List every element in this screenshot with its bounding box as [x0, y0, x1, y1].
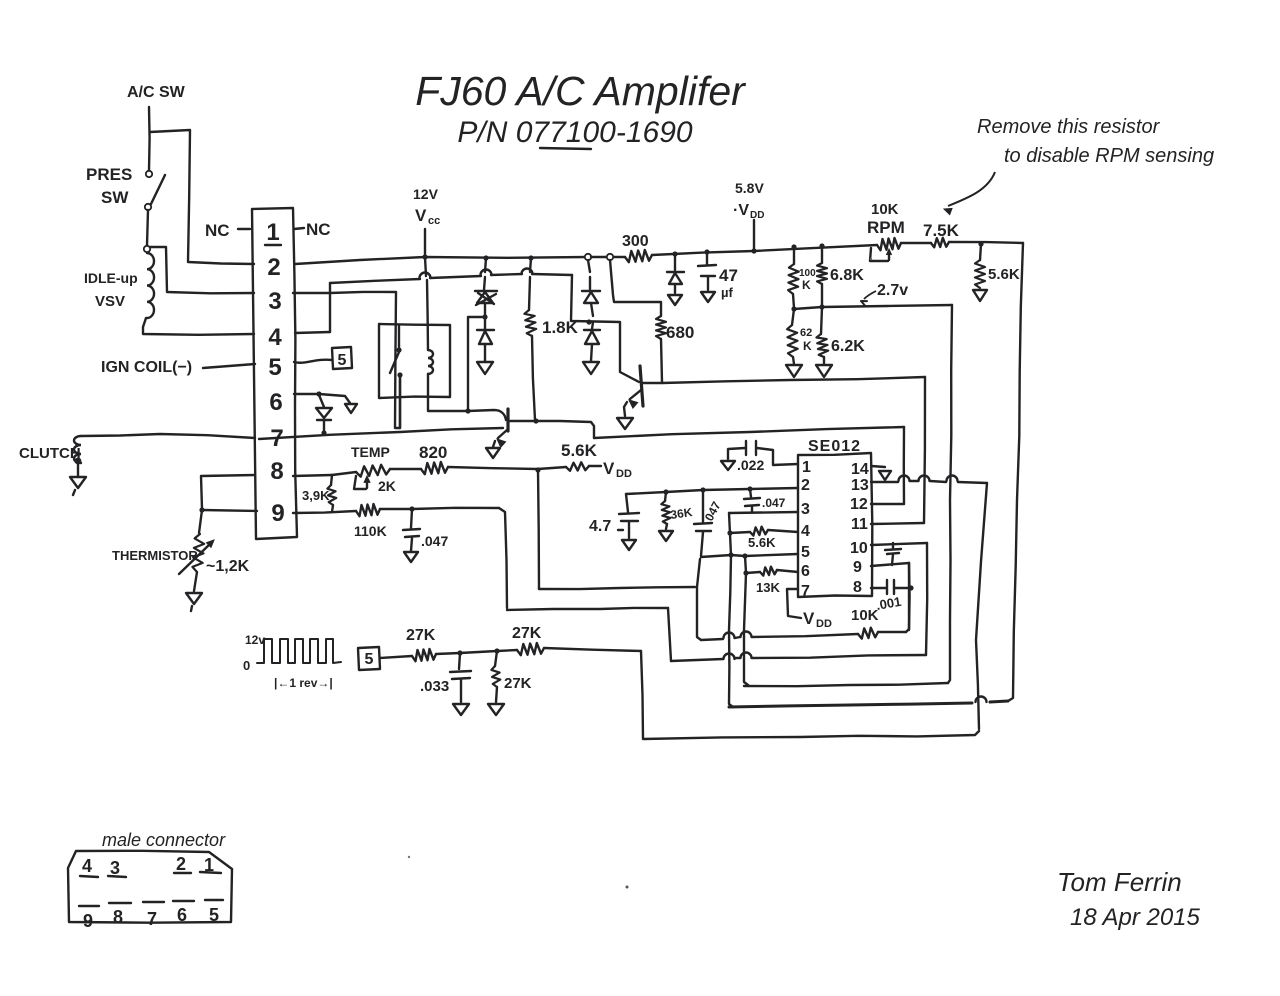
junction dot 18K bottom [533, 418, 538, 423]
svg-text:8: 8 [113, 907, 123, 927]
label 2K [378, 478, 396, 494]
svg-text:SW: SW [101, 188, 129, 207]
wire rail segment to top right corner [949, 242, 1023, 243]
svg-text:IGN COIL(−): IGN COIL(−) [101, 359, 192, 376]
inductor relay coil [428, 350, 433, 374]
label .047b [762, 496, 786, 510]
svg-text:THERMISTOR: THERMISTOR [112, 548, 198, 563]
svg-text:5.6K: 5.6K [561, 441, 598, 460]
pin 9 label [271, 500, 284, 527]
label NC left [205, 221, 230, 240]
connector strip body [252, 208, 297, 539]
male pin 3 [110, 858, 120, 878]
label NC right [306, 220, 331, 239]
resistor 10K RPM [877, 238, 901, 250]
node open circle on rail 2 [607, 254, 613, 260]
IC pin 1 label [802, 459, 811, 476]
junction dot .001 right [908, 585, 913, 590]
ground arrow under D2 [477, 362, 493, 374]
junction dot VDD stub [751, 248, 756, 253]
label .047a rotated [700, 499, 723, 526]
wire 100K column upper [793, 247, 795, 264]
diode D3 [582, 291, 600, 316]
svg-text:5.6K: 5.6K [748, 535, 776, 550]
svg-text:VSV: VSV [95, 293, 125, 310]
wire riser to pin 11 [924, 377, 925, 523]
junction dot .047b top [747, 486, 752, 491]
label 4.7 [589, 518, 623, 535]
wire pin9 drop to H7 [908, 563, 911, 630]
resistor 300 on rail [625, 250, 652, 262]
svg-text:10: 10 [850, 540, 868, 557]
male pin 3 underline [108, 876, 126, 877]
svg-text:Tom Ferrin: Tom Ferrin [1057, 867, 1182, 897]
label 5.6K ic [748, 535, 776, 550]
IC pin 4 label [801, 523, 810, 540]
wire IC pin12 row [871, 503, 904, 505]
label 36K [669, 505, 693, 522]
wire IC pin7 VDD bracket [787, 589, 801, 618]
svg-text:5: 5 [209, 905, 219, 925]
male pin 5 overline [205, 899, 223, 901]
wire H608 row [507, 608, 668, 610]
svg-text:62: 62 [800, 327, 812, 339]
diode D2 [477, 317, 494, 361]
junction dot pin7 row [321, 430, 326, 435]
male pin 8 overline [109, 902, 131, 904]
wire 18K column upper [529, 258, 531, 310]
junction dot 6.8K [819, 243, 824, 248]
resistor 7.5K on rail [931, 238, 949, 248]
male pin 7 overline [143, 901, 164, 903]
capacitor .047a [694, 490, 712, 556]
wire pulse net to W5 corner [544, 648, 641, 651]
resistor 110K [356, 504, 380, 516]
diode D1 (crossed out) [475, 291, 497, 305]
speck2 [408, 856, 410, 858]
wire clutch coil top to pin7 row [81, 434, 255, 438]
label 27K vertical [504, 675, 532, 692]
svg-text:4: 4 [268, 324, 282, 351]
wire pin6 to small ground [319, 394, 350, 403]
ground arrow at pin6 branch [345, 404, 357, 413]
wire pin8 row right [293, 475, 332, 476]
svg-text:9: 9 [83, 911, 93, 931]
label A/C SW [127, 84, 186, 101]
wire pin 7 row to Q1 [259, 428, 503, 439]
svg-text:µf: µf [721, 285, 733, 300]
label RPM [867, 218, 905, 237]
pin 5 label [268, 354, 281, 381]
annotation arrow to 2.7v wire [861, 291, 876, 306]
svg-text:2: 2 [801, 477, 810, 494]
label ~1,2K [206, 558, 250, 575]
wire 27K to junction [436, 653, 460, 654]
label 2.7v [877, 282, 908, 299]
wire to TEMP trimmer [332, 472, 356, 475]
wire pin3 row to relay [293, 292, 400, 428]
label 5 in pulse box [365, 651, 374, 668]
svg-text:6: 6 [177, 905, 187, 925]
junction dot 100K bottom [791, 306, 796, 311]
wire v1 column (pin3 drop) [729, 513, 733, 707]
wire D1 to D2 [484, 303, 486, 317]
resistor 6.8K [817, 263, 827, 284]
male pin 2 [176, 854, 186, 874]
wire thermistor stem [194, 572, 197, 591]
junction dot pin4 left [727, 530, 732, 535]
wire Q2 collector to wire B [643, 382, 662, 384]
junction dot thermistor node [199, 507, 204, 512]
label VDD temp row [603, 459, 632, 480]
resistor 820 [421, 462, 448, 474]
wire second rail drop to Q2 base [571, 275, 639, 382]
label 300 [622, 233, 649, 250]
wire 2.7V node row [794, 305, 952, 309]
male pin 1 underline [200, 872, 221, 873]
male pin 4 underline [80, 876, 98, 877]
pin 3 label [268, 288, 281, 315]
wire W5 bottom return to pulse net [641, 651, 979, 739]
wire 6.8K to node [821, 284, 823, 306]
wire pin9 row right [293, 511, 356, 513]
junction dot cap 47 [704, 249, 709, 254]
wire 12V Vcc stub [424, 229, 426, 257]
svg-text:820: 820 [419, 443, 447, 462]
junction dot 100K [791, 244, 796, 249]
switch PRES SW top contact [146, 171, 152, 177]
capacitor 4.7 polarized [619, 494, 639, 538]
label VDD ic [803, 609, 832, 630]
svg-text:3,9K: 3,9K [302, 488, 330, 503]
svg-text:V: V [415, 206, 427, 225]
node contact circle above VSV [144, 246, 150, 252]
ground arrow at pin14 [879, 471, 891, 480]
junction dot 7.5K right [978, 241, 983, 246]
svg-text:4: 4 [801, 523, 810, 540]
label .001 [875, 594, 903, 613]
label 110K [354, 523, 387, 539]
svg-text:680: 680 [666, 323, 694, 342]
label 12V [413, 186, 439, 202]
signature date 18 Apr 2015 [1070, 904, 1201, 931]
svg-text:|←1 rev→|: |←1 rev→| [274, 676, 333, 690]
inductor IDLE-UP VSV coil [147, 253, 154, 318]
IC pin 9 label [853, 559, 862, 576]
svg-text:4: 4 [82, 856, 92, 876]
wire H10 dark return (pin3 column to far-right riser) [729, 697, 1008, 708]
wire 820 to junction [448, 467, 538, 469]
ground arrow under 62K [786, 357, 802, 377]
wire A/C SW branch to connector pin 2 [150, 130, 254, 264]
resistor 62K [787, 309, 798, 357]
signature text Tom Ferrin [1057, 867, 1182, 897]
svg-text:9: 9 [853, 559, 862, 576]
capacitor .047b [744, 489, 760, 512]
junction dot Vcc [422, 254, 427, 259]
wire .022 left to ground [728, 448, 745, 459]
svg-text:0: 0 [243, 658, 250, 673]
trimmer arrow under 10K RPM [870, 248, 891, 261]
node open circle on rail [585, 254, 591, 260]
waveform pulse train [257, 639, 341, 663]
wire clutch stem [77, 464, 79, 476]
wire H7 10K row [697, 559, 858, 640]
speck [626, 886, 629, 889]
junction dot 36K top [663, 489, 668, 494]
svg-text:.033: .033 [420, 678, 449, 695]
svg-text:RPM: RPM [867, 218, 905, 237]
svg-text:5.6K: 5.6K [988, 266, 1020, 283]
junction dot between diodes [482, 314, 487, 319]
svg-text:CLUTCH: CLUTCH [19, 445, 81, 462]
svg-text:K: K [802, 278, 811, 292]
ground arrow under 6.2K [816, 357, 832, 377]
wire riser pin4 to second rail [329, 283, 331, 332]
transistor Q2 emitter [624, 390, 641, 416]
ground arrow under thermistor [186, 593, 202, 611]
trimmer arrow TEMP [354, 476, 370, 489]
svg-text:6: 6 [269, 389, 282, 416]
relay switch blade [390, 352, 399, 373]
wire diode junction riser [468, 317, 483, 410]
ground arrow under D6 [668, 295, 682, 305]
title text FJ60 A/C Amplifer [415, 68, 747, 114]
note text line 1 [977, 116, 1161, 138]
junction dot .047a top [700, 487, 705, 492]
wire 5.6K to VDD label [589, 465, 601, 467]
relay box [379, 324, 450, 398]
resistor 100K [788, 264, 799, 294]
thermistor arrow [179, 540, 214, 574]
svg-text:2: 2 [267, 254, 280, 281]
label 5.6K right [988, 266, 1020, 283]
wire TEMP to 820 [390, 468, 421, 470]
wire pin9 column drop [499, 508, 507, 608]
switch PRES SW blade [151, 175, 165, 204]
label 13K ic [756, 580, 780, 595]
capacitor .001 [887, 580, 910, 594]
label TEMP [351, 444, 390, 460]
transistor Q2 bar [640, 366, 643, 406]
wire IC pin6 row with 13K [746, 567, 798, 576]
junction dot pin6 [316, 391, 321, 396]
capacitor .047 temp [403, 509, 420, 551]
wire pin9 left [202, 510, 257, 511]
ground arrow under 36K [659, 524, 673, 541]
male pin 6 overline [173, 900, 194, 902]
ground arrow under 5.6K right [973, 290, 987, 301]
wire IC pin4 row with 5.6K [730, 527, 798, 536]
IC pin 10 label [850, 540, 868, 557]
junction dot 27K vertical [494, 648, 499, 653]
resistor 1.8K [524, 310, 536, 336]
wire main 12V rail from pin 2 [295, 257, 588, 264]
label 10K [871, 201, 899, 218]
resistor 3.9K [327, 475, 336, 512]
svg-text:47: 47 [719, 266, 738, 285]
svg-text:4.7: 4.7 [589, 518, 611, 535]
svg-text:12v: 12v [245, 633, 265, 647]
resistor 5.6K temp row [566, 462, 589, 471]
svg-text:NC: NC [205, 221, 230, 240]
wire from A/C SW label down [148, 107, 151, 170]
wire rail segment [591, 256, 625, 258]
capacitor .022 [746, 441, 756, 455]
wire VSV top branch to connector pin 3 [150, 247, 254, 293]
resistor 680 [656, 316, 666, 339]
junction dot .033 [457, 650, 462, 655]
svg-text:12: 12 [850, 496, 868, 513]
label THERMISTOR [112, 548, 198, 563]
svg-text:A/C SW: A/C SW [127, 84, 186, 101]
svg-text:PRES: PRES [86, 165, 132, 184]
svg-text:110K: 110K [354, 523, 387, 539]
svg-text:IDLE-up: IDLE-up [84, 270, 138, 286]
wire far right vertical from rail corner [1008, 243, 1023, 701]
wire B from Q2 to pin 11 riser [662, 377, 925, 383]
junction dot pin6 left [743, 570, 748, 575]
pin 1 underline [265, 244, 281, 246]
wire H9 from 2.7V drop to v2 column [744, 683, 948, 686]
label 27K first [406, 627, 436, 644]
svg-text:male connector: male connector [102, 830, 226, 850]
junction dot .047 cap [409, 506, 414, 511]
pin 4 label [268, 324, 282, 351]
wire IGN COIL to connector pin 5 [203, 364, 255, 368]
dash NC right [294, 228, 304, 229]
label VSV [95, 293, 125, 310]
svg-text:5: 5 [801, 544, 810, 561]
wire 2.7V vertical drop [948, 305, 952, 683]
wire IC pin11 row [871, 523, 924, 524]
IC pin 2 label [801, 477, 810, 494]
relay switch bottom contact [397, 372, 402, 428]
svg-text:6.2K: 6.2K [831, 338, 865, 355]
wire rail segment to RPM resistor [652, 245, 877, 255]
label male connector [102, 830, 226, 850]
resistor 36K [661, 492, 670, 524]
svg-text:13K: 13K [756, 580, 780, 595]
male pin 9 [83, 911, 93, 931]
wire IC pin13 row with hops [871, 476, 987, 483]
label 27K second [512, 625, 542, 642]
label 3,9K [302, 488, 330, 503]
capacitor C9-10 [885, 543, 901, 565]
IC pin 12 label [850, 496, 868, 513]
svg-text:13: 13 [851, 477, 869, 494]
label SE012 [808, 438, 861, 455]
wire junction to 5.6K [538, 467, 566, 469]
label VDD top [733, 202, 764, 221]
svg-text:V: V [803, 609, 815, 628]
svg-text:TEMP: TEMP [351, 444, 390, 460]
svg-text:7: 7 [147, 909, 157, 929]
wire VDD node drop [538, 470, 539, 589]
svg-text:.047: .047 [421, 533, 448, 549]
svg-text:9: 9 [271, 500, 284, 527]
wire to second 27K [497, 650, 517, 651]
male pin 7 [147, 909, 157, 929]
resistor 10K feedback [858, 628, 878, 639]
IC pin 14 label [851, 461, 869, 478]
junction dot pin5 v2 [742, 553, 747, 558]
wire to 27K vertical junction [460, 651, 497, 653]
resistor TEMP trimmer [356, 465, 390, 477]
svg-text:FJ60 A/C Amplifer: FJ60 A/C Amplifer [415, 68, 747, 114]
svg-text:6: 6 [801, 563, 810, 580]
wire IC pin1 to .022 [757, 448, 798, 465]
svg-text:10K: 10K [871, 201, 899, 218]
label 47 [719, 266, 738, 285]
IC pin 8 label [853, 579, 862, 596]
transistor Q1 bar [506, 409, 509, 431]
svg-text:2K: 2K [378, 478, 396, 494]
svg-text:P/N 077100-1690: P/N 077100-1690 [457, 116, 692, 149]
transistor Q1 emitter [493, 430, 507, 447]
svg-text:DD: DD [816, 618, 832, 630]
pin 8 label [270, 458, 283, 485]
label 820 [419, 443, 447, 462]
wire diode column x591 upper [588, 260, 590, 289]
junction dot diode 675 [672, 251, 677, 256]
node box 5 (ign coil net) [332, 347, 352, 369]
svg-text:NC: NC [306, 220, 331, 239]
ground arrow under 47uf [701, 292, 715, 302]
male pin 4 [82, 856, 92, 876]
wire IC pin2 row [626, 488, 798, 494]
svg-text:5: 5 [268, 354, 281, 381]
ground arrow under 27K vertical [488, 704, 504, 715]
svg-text:.022: .022 [737, 457, 764, 473]
label 1 rev [274, 676, 333, 690]
junction dot VDD node [535, 467, 540, 472]
male pin 2 underline [174, 872, 191, 874]
label 5.6K temp row [561, 441, 598, 460]
label 6.8K [830, 267, 864, 284]
wire IC pin14 stub [871, 466, 885, 467]
junction Q2 collector 680 [0, 0, 1, 1]
male pin 6 [177, 905, 187, 925]
svg-text:3: 3 [268, 288, 281, 315]
wire pin 5 wavy stub [294, 360, 332, 363]
svg-text:2: 2 [176, 854, 186, 874]
svg-text:11: 11 [851, 516, 868, 533]
label 6.2K [831, 338, 865, 355]
label SW [101, 188, 129, 207]
ground arrow under .033 [453, 704, 469, 715]
wire H588 row [539, 587, 695, 589]
wire IC pin9 stub [871, 563, 909, 566]
ground at Q1 emitter [486, 448, 500, 458]
IC pin 7 label [801, 583, 810, 600]
male pin 9 overline [79, 905, 99, 907]
IC pin 5 label [801, 544, 810, 561]
diode D6 to ground [667, 254, 684, 293]
resistor 27K second [517, 643, 544, 655]
label 7.5K [923, 221, 960, 240]
junction dot 18K column [528, 255, 533, 260]
wire 110K to cap junction [380, 508, 412, 510]
label .022 [737, 457, 764, 473]
svg-text:3: 3 [801, 501, 810, 518]
wire second rail from pin3 riser [330, 269, 572, 284]
note text line 2 [1004, 145, 1214, 167]
wire IC pin5 row [701, 554, 798, 557]
label IGN COIL(-) [101, 359, 192, 376]
wire PRES SW to IDLE-UP VSV [147, 210, 148, 245]
switch PRES SW bottom contact [145, 204, 151, 210]
